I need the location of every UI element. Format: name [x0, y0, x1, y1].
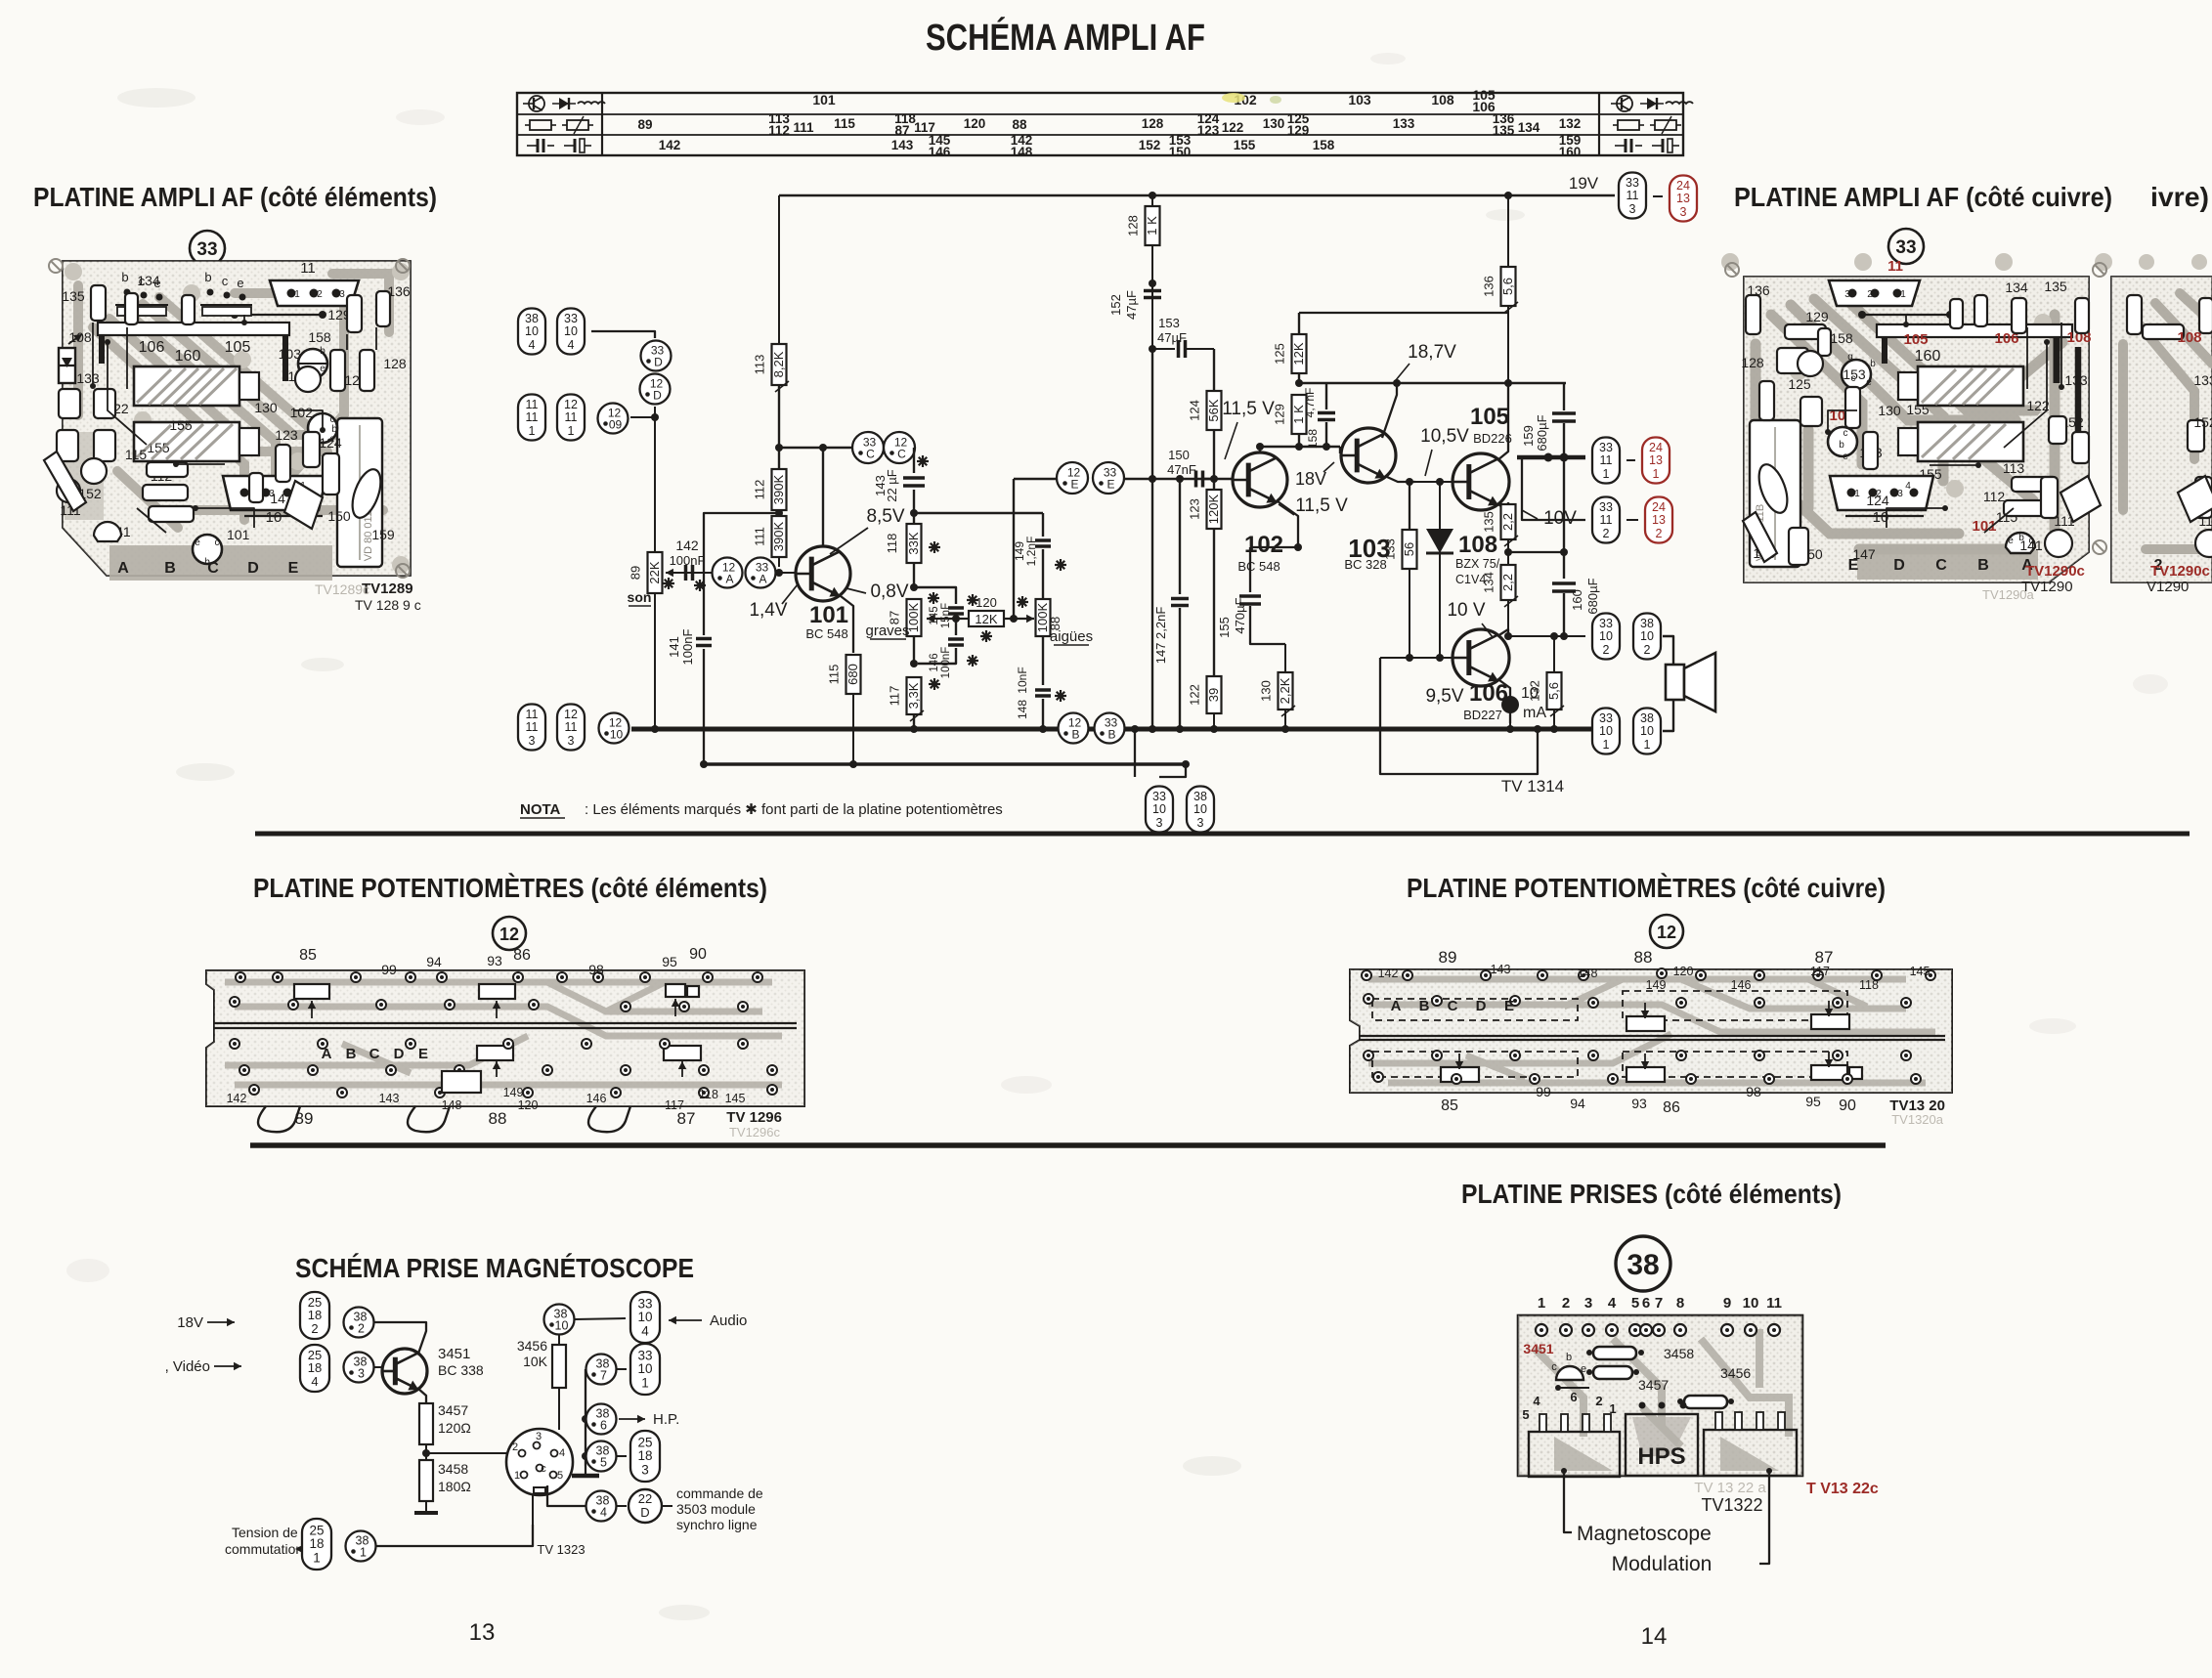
pot board left numbers [227, 946, 746, 1128]
left PCB transistor 103 [279, 346, 327, 378]
table numbers [637, 87, 1581, 159]
svg-text:10: 10 [1640, 629, 1654, 643]
connector 33-B [1095, 713, 1125, 744]
right PCB pad letters [1848, 557, 2034, 574]
wire tension to DIN [376, 1493, 533, 1546]
connector 11-11-3 [518, 705, 545, 751]
svg-text:99: 99 [381, 962, 397, 977]
svg-text:135: 135 [62, 288, 85, 304]
svg-text:B: B [1977, 557, 1989, 574]
resistor 88 100K pot [1035, 599, 1063, 636]
wire T106 emitter mA [1499, 680, 1546, 733]
node column right of DIN [582, 1369, 589, 1466]
label tension [225, 1525, 303, 1557]
svg-text:115: 115 [125, 447, 148, 462]
svg-text:5: 5 [1522, 1407, 1529, 1422]
svg-text:47nF: 47nF [1167, 462, 1196, 477]
svg-text:105: 105 [1470, 404, 1509, 430]
svg-text:ivre): ivre) [2150, 182, 2209, 212]
wire T105 emitter [1498, 502, 1508, 512]
svg-text:C: C [866, 448, 875, 461]
svg-text:PLATINE PRISES (côté éléments): PLATINE PRISES (côté éléments) [1461, 1179, 1842, 1209]
svg-text:115: 115 [827, 665, 842, 685]
svg-text:130: 130 [1259, 680, 1274, 702]
svg-text:180Ω: 180Ω [438, 1479, 471, 1494]
wire base T101 [775, 569, 796, 577]
svg-text:synchro ligne: synchro ligne [676, 1517, 758, 1532]
wire y524 [914, 512, 1043, 514]
prises board outline [1518, 1315, 1802, 1476]
svg-text:2,2: 2,2 [1500, 513, 1515, 531]
resistor 128 1K [1126, 195, 1160, 349]
svg-text:12K: 12K [975, 612, 997, 626]
svg-text:11: 11 [565, 720, 578, 734]
wire 33-10-4 to node D [591, 331, 655, 338]
svg-text:E: E [1070, 478, 1078, 492]
svg-text:22K: 22K [647, 561, 662, 583]
svg-text:129: 129 [1805, 309, 1829, 324]
svg-text:1: 1 [1603, 467, 1610, 481]
svg-text:2,2K: 2,2K [1278, 677, 1292, 704]
resistor 135 2.2 [1482, 504, 1519, 565]
wire E corner x1037 [1013, 479, 1015, 619]
connector 25-18-2 [300, 1292, 329, 1339]
svg-text:10: 10 [564, 324, 578, 338]
svg-text:130: 130 [1878, 403, 1901, 418]
svg-text:e: e [1843, 452, 1848, 462]
svg-text:18,7V: 18,7V [1408, 342, 1456, 363]
svg-text:son: son [628, 589, 652, 605]
svg-text:4: 4 [1905, 481, 1911, 492]
svg-text:11: 11 [565, 410, 578, 424]
wire T102 collector [1256, 443, 1264, 452]
page number 14 [1641, 1623, 1668, 1650]
left PCB connector 11 [231, 260, 359, 319]
svg-text:22 µF: 22 µF [885, 469, 899, 502]
right PCB connector 10 [1830, 476, 1933, 526]
svg-text:09: 09 [609, 418, 623, 432]
svg-text:2: 2 [317, 289, 323, 300]
svg-text:118: 118 [699, 1088, 718, 1101]
svg-text:12K: 12K [1291, 342, 1306, 365]
svg-text:A: A [1391, 998, 1402, 1014]
wire 33-10-2 link [1626, 635, 1627, 637]
svg-text:5: 5 [1631, 1295, 1639, 1312]
left PCB board outline [63, 261, 411, 576]
svg-text:4: 4 [1608, 1295, 1617, 1312]
wire 38-4 row [547, 1485, 586, 1506]
label TV 1323 [537, 1542, 585, 1557]
wire to DIN pin2 [426, 1452, 507, 1454]
svg-text:E: E [1848, 557, 1859, 574]
svg-text:SCHÉMA AMPLI AF: SCHÉMA AMPLI AF [926, 16, 1205, 59]
connector 12-E [1057, 462, 1088, 494]
svg-text:141: 141 [667, 636, 681, 658]
prises board pins [1536, 1295, 1782, 1336]
title PLATINE AMPLI AF (cote cuivre) [1734, 182, 2112, 212]
svg-text:115: 115 [834, 116, 855, 131]
circled 12 left [493, 917, 526, 950]
svg-text:143: 143 [891, 138, 914, 152]
pot board right numbers [1378, 948, 1930, 1116]
wire emitter T101 [841, 596, 853, 653]
svg-text:128: 128 [1741, 355, 1764, 370]
resistor 132 5.6 [1528, 632, 1565, 733]
wire 142 to 12A [695, 572, 710, 574]
circled 12 right [1650, 915, 1683, 948]
svg-text:89: 89 [629, 566, 643, 580]
pot board right ref [1889, 1097, 1945, 1127]
connector 33-10-2 [1592, 614, 1620, 660]
pot board left letters [322, 1046, 481, 1093]
label 11.5V T102 [1222, 399, 1275, 459]
svg-text:D: D [654, 356, 663, 369]
svg-text:150: 150 [1168, 448, 1190, 462]
svg-text:88: 88 [1634, 948, 1653, 967]
svg-text:158: 158 [308, 329, 331, 345]
pot board left outline [206, 970, 804, 1106]
svg-text:158: 158 [1830, 330, 1853, 346]
label commande [676, 1485, 763, 1532]
svg-text:c: c [1843, 428, 1848, 439]
svg-text:1: 1 [1603, 738, 1610, 752]
svg-text:10: 10 [1152, 802, 1166, 816]
right PCB red label 102 [1829, 408, 1853, 424]
wire 3456 to DIN [558, 1388, 560, 1430]
svg-text:B: B [1419, 998, 1430, 1014]
svg-text:11: 11 [1600, 513, 1613, 527]
svg-text:6: 6 [1570, 1390, 1577, 1404]
svg-text:89: 89 [1439, 948, 1457, 967]
svg-text:117: 117 [665, 1098, 684, 1112]
wire video to base [374, 1366, 383, 1368]
svg-text:10: 10 [1599, 629, 1613, 643]
capacitor 160 680uF [1552, 578, 1600, 640]
svg-text:1: 1 [360, 1546, 367, 1560]
prises transistor 3451 [1523, 1341, 1586, 1380]
svg-text:159: 159 [371, 527, 395, 542]
svg-text:47µF: 47µF [1157, 330, 1187, 345]
svg-text:0,8V: 0,8V [870, 581, 908, 602]
svg-text:3: 3 [1680, 205, 1687, 219]
svg-text:3457: 3457 [438, 1402, 468, 1418]
capacitor 149 1.2nF [914, 513, 1066, 600]
svg-text:124: 124 [319, 435, 342, 451]
left PCB transistor pads bce 1 [115, 270, 168, 316]
rail 19V wire [779, 192, 1615, 199]
svg-text:Audio: Audio [710, 1312, 747, 1329]
svg-text:19V: 19V [1569, 174, 1599, 193]
svg-text:C: C [369, 1046, 380, 1062]
connector 38-10-3 [1187, 787, 1214, 833]
left PCB corner screws [49, 259, 410, 578]
svg-text:1: 1 [1900, 289, 1906, 300]
connector 33-10-1 [630, 1344, 660, 1395]
resistor 112 390K [753, 469, 787, 516]
resistor 115 680 [827, 655, 861, 694]
svg-text:128: 128 [383, 356, 407, 371]
connector 33-10-3 [1146, 787, 1173, 833]
label Magnetoscope [1577, 1523, 1712, 1545]
svg-text:C: C [1448, 998, 1458, 1014]
svg-text:A: A [322, 1046, 332, 1062]
svg-text:BC 548: BC 548 [1237, 559, 1279, 574]
svg-text:142: 142 [675, 538, 699, 553]
svg-text:B: B [1107, 728, 1115, 742]
svg-text:120Ω: 120Ω [438, 1420, 471, 1436]
svg-text:132: 132 [1559, 116, 1582, 131]
svg-text:PLATINE POTENTIOMÈTRES (côté é: PLATINE POTENTIOMÈTRES (côté éléments) [253, 873, 767, 903]
svg-text:: Les éléments marqués ✱ f: : Les éléments marqués ✱ font parti de l… [585, 801, 1003, 818]
svg-text:10V: 10V [1543, 508, 1577, 529]
resistor 118 33K [885, 513, 940, 591]
label 10.5V [1420, 426, 1469, 476]
svg-text:18V: 18V [177, 1314, 203, 1331]
label aigues [1050, 628, 1093, 645]
svg-text:1: 1 [1854, 489, 1860, 499]
connector 38-6 [586, 1404, 617, 1435]
svg-text:2: 2 [1595, 1394, 1602, 1408]
svg-text:152: 152 [2193, 414, 2212, 430]
svg-text:133: 133 [2064, 372, 2088, 388]
title artifact cuivre repeat [2150, 182, 2209, 212]
right PCB board outline [1744, 277, 2089, 582]
zener diode 108 [1426, 482, 1500, 662]
svg-text:8: 8 [1676, 1295, 1684, 1312]
svg-text:142: 142 [1378, 967, 1399, 980]
svg-text:4,7nF: 4,7nF [1303, 388, 1317, 418]
wire 113 to rail [778, 195, 780, 344]
svg-text:56: 56 [1402, 542, 1416, 556]
svg-text:b: b [320, 346, 325, 357]
resistor 124 56K [1188, 349, 1222, 479]
wire 113 to collector node [778, 385, 780, 448]
label 18V [1295, 462, 1334, 489]
svg-text:10: 10 [1743, 1295, 1759, 1312]
prises ref TV1322 [1694, 1480, 1879, 1515]
wiper line graves [865, 615, 960, 639]
svg-text:2: 2 [512, 1441, 518, 1453]
resistor 3457 120 [419, 1402, 471, 1444]
svg-text:4: 4 [559, 1447, 565, 1459]
svg-text:c: c [541, 1463, 546, 1475]
svg-text:130: 130 [254, 400, 278, 415]
capacitor 146 100nF [918, 619, 978, 678]
resistor 130 2.2K [1259, 644, 1296, 733]
svg-text:2: 2 [358, 1322, 365, 1336]
separator line lower [250, 1142, 1886, 1148]
svg-text:11: 11 [1626, 189, 1639, 202]
capacitor 145 15nF [914, 587, 978, 628]
svg-text:1,2nF: 1,2nF [1024, 537, 1038, 567]
svg-text:133: 133 [76, 370, 100, 386]
svg-text:133: 133 [2193, 372, 2212, 388]
svg-text:147 2,2nF: 147 2,2nF [1153, 607, 1168, 665]
svg-text:129: 129 [1287, 123, 1310, 138]
prises board copper [1535, 1329, 1789, 1471]
svg-text:136: 136 [1482, 276, 1496, 297]
connector 38-10-2 [1633, 614, 1661, 660]
wire line2 [700, 760, 1186, 768]
svg-text:3: 3 [641, 1463, 649, 1478]
connector 12-10 [599, 713, 629, 744]
svg-text:390K: 390K [771, 474, 786, 504]
svg-text:22: 22 [638, 1491, 652, 1506]
svg-text:134: 134 [1518, 120, 1540, 135]
svg-text:2: 2 [1656, 527, 1663, 540]
svg-text:e: e [237, 276, 243, 290]
capacitor 158 4.7nF [1303, 383, 1335, 449]
svg-text:TV 1314: TV 1314 [1501, 777, 1564, 796]
resistor 123 120K [1188, 479, 1222, 675]
connector 33-E [1093, 462, 1124, 494]
svg-text:85: 85 [1441, 1097, 1458, 1114]
wire T105 collector [1497, 381, 1508, 460]
svg-text:111: 111 [753, 527, 767, 546]
resistor 89 22K [628, 552, 674, 606]
svg-text:e: e [1866, 377, 1872, 388]
svg-text:102: 102 [290, 405, 314, 420]
wire 133 column [1409, 482, 1410, 530]
svg-text:10 V: 10 V [1447, 600, 1485, 621]
magnetoscope leader [1561, 1468, 1572, 1532]
svg-text:commande de: commande de [676, 1485, 763, 1501]
wire 152 junction down to bus [1149, 349, 1156, 733]
svg-text:1 K: 1 K [1145, 216, 1159, 236]
svg-text:2: 2 [1867, 289, 1873, 300]
transistor 105 BD226 [1453, 404, 1512, 510]
svg-text:b: b [1839, 440, 1844, 451]
resistor 125 12K [1273, 313, 1307, 387]
right PCB red label 106 [1994, 330, 2018, 347]
wire 33-11-2 to red [1626, 519, 1638, 521]
svg-text:108: 108 [2177, 329, 2201, 346]
table symbol column icons [523, 96, 1693, 152]
svg-text:98: 98 [1746, 1084, 1761, 1099]
svg-text:4: 4 [641, 1324, 649, 1339]
wire 3457 to 3458 [422, 1444, 430, 1460]
svg-text:b: b [1566, 1352, 1572, 1363]
resistor 122 39 [1188, 676, 1222, 733]
svg-text:3503 module: 3503 module [676, 1501, 756, 1517]
svg-text:C: C [897, 448, 906, 461]
svg-text:146: 146 [586, 1092, 607, 1105]
capacitor 155 470uF [1217, 547, 1285, 644]
svg-text:T V13 22c: T V13 22c [1806, 1481, 1879, 1497]
prises resistor 3457 [1586, 1366, 1669, 1393]
svg-text:33K: 33K [906, 532, 921, 554]
capacitor 159 680uF [1521, 383, 1576, 457]
label 10V upper [1522, 508, 1577, 529]
resistor 120 12K [956, 595, 1018, 642]
svg-text:101: 101 [809, 602, 848, 628]
svg-text:133: 133 [1383, 538, 1398, 560]
svg-text:95: 95 [662, 954, 677, 969]
svg-text:101: 101 [227, 527, 250, 542]
resistor 133 56 [1383, 530, 1417, 662]
svg-text:680: 680 [846, 664, 860, 685]
pot board right copper [1368, 979, 1935, 1083]
svg-text:93: 93 [487, 953, 502, 968]
svg-text:148: 148 [442, 1098, 462, 1112]
svg-text:8,5V: 8,5V [866, 506, 904, 527]
connector 25-18-3 [630, 1431, 660, 1482]
label HP [619, 1411, 679, 1428]
svg-text:b: b [204, 270, 211, 284]
svg-text:1: 1 [294, 289, 300, 300]
title SCHEMA PRISE MAGNETOSCOPE [295, 1253, 694, 1283]
svg-text:143: 143 [1491, 963, 1511, 976]
connector 38-3 [344, 1353, 374, 1383]
label Modulation [1612, 1553, 1713, 1575]
wire 155 top [1250, 543, 1302, 551]
resistor 111 390K [753, 516, 787, 567]
svg-text:87: 87 [894, 123, 909, 138]
svg-text:145: 145 [725, 1092, 746, 1105]
left PCB copper traces [65, 263, 410, 581]
svg-text:3: 3 [1844, 289, 1850, 300]
svg-text:BD226: BD226 [1473, 431, 1512, 446]
transistor 103 BC328 [1341, 428, 1396, 572]
wire 38-10 down [558, 1335, 560, 1345]
connector 33-10-4 audio [630, 1292, 660, 1343]
svg-text:4: 4 [529, 338, 536, 352]
svg-text:D: D [394, 1046, 405, 1062]
svg-text:94: 94 [1570, 1096, 1585, 1111]
svg-text:PLATINE AMPLI AF (côté élément: PLATINE AMPLI AF (côté éléments) [33, 182, 437, 212]
wire 87 bottom [910, 636, 918, 667]
svg-text:128: 128 [1126, 215, 1141, 237]
left PCB cap 155 [134, 422, 259, 461]
svg-text:11: 11 [1600, 453, 1613, 467]
connector 38-7 [586, 1355, 628, 1385]
svg-text:7: 7 [600, 1369, 607, 1383]
svg-text:113: 113 [753, 355, 767, 375]
connector 12-11-3 [557, 705, 585, 751]
svg-text:HPS: HPS [1637, 1443, 1685, 1470]
svg-text:120K: 120K [1206, 494, 1221, 524]
svg-text:b: b [1870, 359, 1876, 369]
connector 25-18-1 [302, 1519, 331, 1570]
svg-text:1: 1 [514, 1470, 520, 1482]
connector 24-13-1 red [1642, 438, 1670, 484]
capacitor 148 10nF [1016, 667, 1066, 733]
connector 38-4 [586, 1491, 628, 1522]
connector 12-A [713, 558, 743, 588]
svg-text:152: 152 [1108, 294, 1123, 316]
svg-text:4: 4 [600, 1506, 607, 1520]
svg-text:3: 3 [1197, 816, 1204, 830]
right PCB corner screws [1725, 263, 2106, 554]
title PLATINE AMPLI AF (cote elements) [33, 182, 437, 212]
svg-text:3456: 3456 [1720, 1365, 1751, 1381]
svg-text:98: 98 [588, 962, 604, 977]
svg-text:103: 103 [279, 346, 302, 362]
svg-text:c: c [222, 274, 229, 288]
circled 33 left [190, 231, 225, 266]
wire 12-09 to son line [630, 413, 659, 421]
svg-text:146: 146 [929, 145, 951, 159]
capacitor 143 22uF [873, 448, 929, 517]
svg-text:A: A [725, 573, 733, 586]
right PCB cap 155 [1898, 422, 2023, 482]
svg-text:11: 11 [300, 260, 316, 277]
resistor 3458 180 [419, 1460, 471, 1501]
svg-text:90: 90 [689, 946, 707, 963]
connector 25-18-4 [300, 1345, 329, 1392]
svg-text:3458: 3458 [438, 1461, 468, 1477]
svg-text:146: 146 [929, 653, 940, 671]
